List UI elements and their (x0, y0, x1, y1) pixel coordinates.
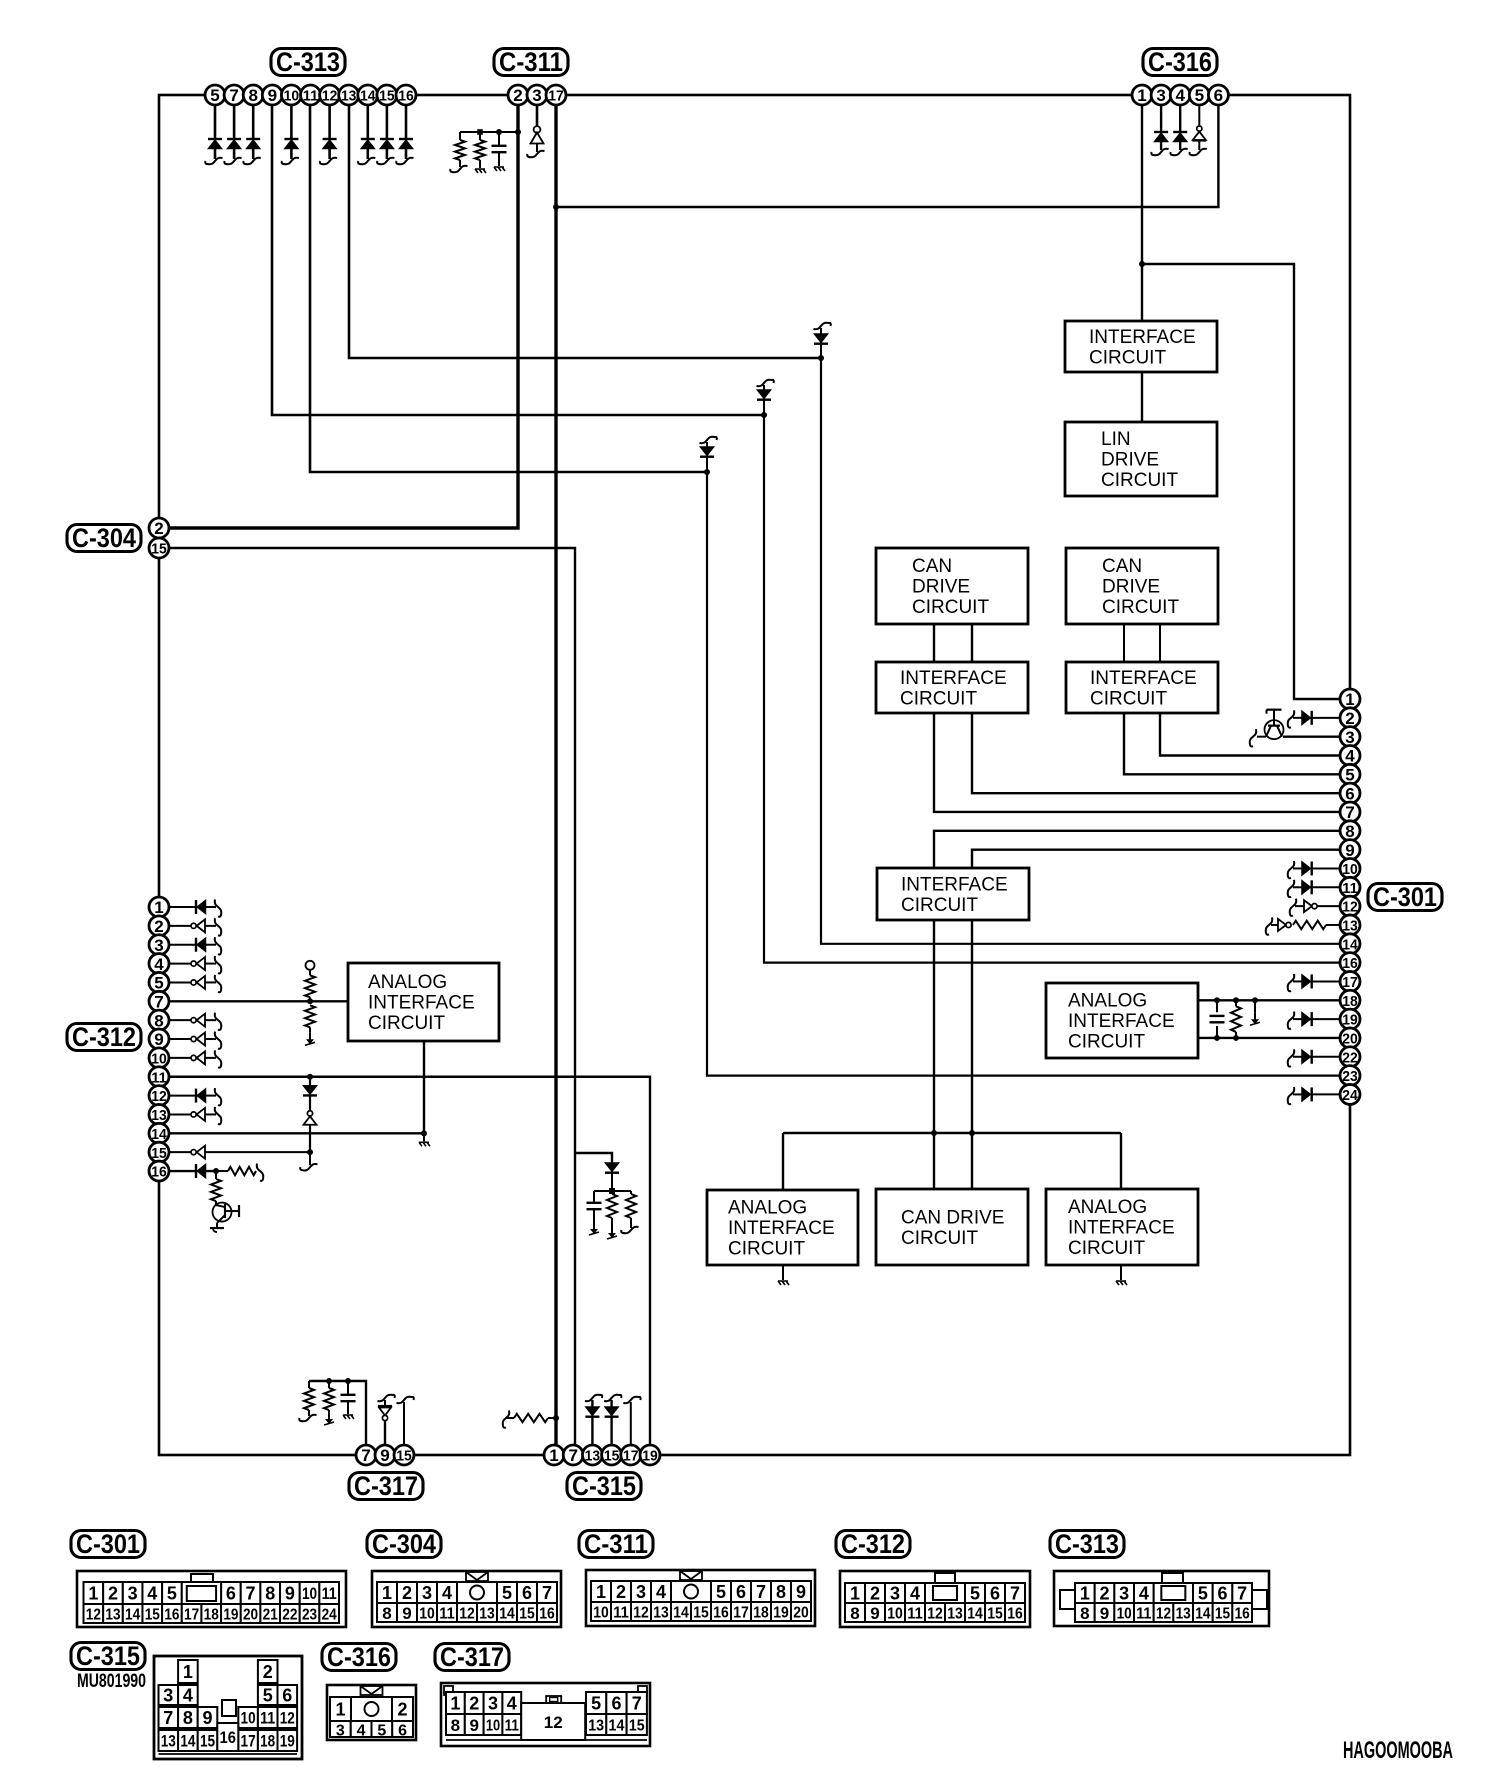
svg-text:7: 7 (163, 1708, 173, 1728)
svg-text:INTERFACE: INTERFACE (1068, 1011, 1175, 1032)
svg-text:14: 14 (499, 1606, 515, 1623)
svg-text:C-312: C-312 (72, 1022, 136, 1052)
wire U6 to C-301 pin 5 (1124, 713, 1350, 774)
svg-text:12: 12 (1342, 899, 1358, 916)
pin C-301:5 (1340, 764, 1360, 784)
pin C-301:7 (1340, 802, 1360, 822)
wire C-301 pin 9 to U7 (972, 850, 1350, 868)
svg-text:CAN: CAN (1102, 556, 1142, 577)
pin C-301:2 (1340, 708, 1360, 728)
junction pin14 node (421, 1130, 427, 1136)
svg-text:ANALOG: ANALOG (1068, 991, 1147, 1012)
svg-text:4: 4 (910, 1584, 920, 1604)
svg-text:9: 9 (402, 1604, 411, 1623)
svg-text:5: 5 (377, 1723, 386, 1740)
wire node B to C-301 pin 16 (764, 415, 1350, 963)
svg-text:9: 9 (469, 1716, 478, 1735)
svg-text:3: 3 (1119, 1584, 1129, 1604)
svg-text:C-304: C-304 (72, 523, 136, 553)
wire node C to C-301 pin 23 (707, 472, 1350, 1076)
svg-text:2: 2 (1345, 709, 1354, 728)
svg-text:4: 4 (357, 1723, 366, 1740)
svg-text:15: 15 (987, 1606, 1003, 1623)
svg-text:HAGOOMOOBA: HAGOOMOOBA (1343, 1737, 1453, 1764)
svg-text:14: 14 (1195, 1606, 1210, 1623)
pin C-313:7 (224, 85, 244, 105)
svg-text:5: 5 (591, 1694, 601, 1714)
svg-text:12: 12 (86, 1607, 101, 1624)
svg-text:1: 1 (88, 1584, 98, 1604)
transistor Q2 (210, 1203, 239, 1233)
svg-text:5: 5 (1198, 1584, 1208, 1604)
svg-text:CAN: CAN (912, 556, 952, 577)
pin C-301:8 (1340, 821, 1360, 841)
svg-text:4: 4 (507, 1694, 517, 1714)
resistor R5 between pin18/pin20 nets (1231, 997, 1241, 1041)
svg-text:18: 18 (204, 1607, 219, 1624)
svg-text:CIRCUIT: CIRCUIT (728, 1239, 805, 1260)
ground below U10 (1116, 1265, 1127, 1285)
svg-text:23: 23 (1342, 1068, 1358, 1085)
pin C-312:3 (149, 935, 169, 955)
block CAN DRIVE CIRCUIT U3 (876, 548, 1028, 624)
connector body C-312 (840, 1571, 1030, 1627)
wire U6 to C-301 pin 4 (1160, 713, 1350, 755)
svg-text:12: 12 (927, 1606, 943, 1623)
svg-text:5: 5 (154, 974, 163, 993)
svg-text:24: 24 (1342, 1087, 1358, 1104)
wire U3 to U5 left (933, 624, 935, 662)
pin C-301:3 (1340, 727, 1360, 747)
wire bus to analog interface circuits (783, 1133, 1121, 1190)
svg-text:11: 11 (1136, 1606, 1151, 1623)
svg-text:4: 4 (1139, 1584, 1149, 1604)
open diode at C-312 pin 4 (169, 956, 221, 973)
svg-text:16: 16 (713, 1605, 729, 1622)
wire C-313 pin 9 down-right to node B (272, 105, 764, 415)
svg-text:17: 17 (733, 1605, 749, 1622)
transistor Q1 at C-301 pin 3 (1250, 710, 1340, 747)
capacitor C1 near C-311 pin 2 (492, 132, 507, 171)
pin C-304:15 (149, 538, 169, 558)
wire C-311 pin 2 to C-304 pin 2 (159, 105, 518, 528)
svg-text:19: 19 (642, 1448, 658, 1465)
pin C-312:15 (149, 1142, 169, 1162)
junction R9 top (326, 1378, 332, 1384)
resistor R6 at pin 16 (216, 1164, 263, 1181)
svg-text:12: 12 (280, 1709, 295, 1728)
connector label C-317 (bottom) (349, 1471, 423, 1501)
svg-text:11: 11 (260, 1709, 275, 1728)
svg-text:CIRCUIT: CIRCUIT (1090, 688, 1167, 709)
svg-text:C-316: C-316 (327, 1642, 391, 1672)
svg-text:INTERFACE: INTERFACE (900, 668, 1007, 689)
svg-text:2: 2 (154, 519, 163, 538)
svg-text:17: 17 (548, 88, 564, 105)
capacitor C2 in RC filter (587, 1191, 613, 1235)
connector label C-317 (diagram) (435, 1642, 509, 1672)
svg-text:C-315: C-315 (76, 1641, 140, 1671)
open diode at C-312 pin 8 (169, 1013, 221, 1030)
svg-text:15: 15 (519, 1606, 535, 1623)
junction C1 top (496, 129, 502, 135)
pin C-312:1 (149, 897, 169, 917)
svg-text:16: 16 (398, 88, 414, 105)
wire C-311 pin 17 to C-315 pin 1 (554, 105, 557, 1455)
svg-text:7: 7 (154, 993, 163, 1012)
svg-text:8: 8 (451, 1716, 460, 1735)
diode below C-313 pin 8 (243, 105, 260, 164)
pin C-312:7 (149, 991, 169, 1011)
open diode at C-312 pin 5 (169, 975, 221, 992)
svg-text:2: 2 (469, 1694, 479, 1714)
svg-text:11: 11 (505, 1718, 519, 1735)
svg-text:19: 19 (773, 1605, 789, 1622)
pin C-301:16 (1340, 953, 1360, 973)
svg-text:16: 16 (151, 1164, 167, 1181)
pin C-312:2 (149, 916, 169, 936)
pin C-313:9 (262, 85, 282, 105)
pin C-313:15 (377, 85, 397, 105)
svg-text:15: 15 (693, 1605, 709, 1622)
svg-text:7: 7 (1237, 1584, 1247, 1604)
pin C-301:6 (1340, 783, 1360, 803)
svg-text:10: 10 (1342, 861, 1358, 878)
connector label C-312 (diagram) (836, 1529, 910, 1559)
svg-text:INTERFACE: INTERFACE (728, 1218, 835, 1239)
svg-text:LIN: LIN (1101, 429, 1131, 450)
svg-text:2: 2 (402, 1583, 412, 1603)
diode below C-313 pin 16 (396, 105, 413, 164)
svg-text:6: 6 (736, 1582, 746, 1602)
connector body C-304 (372, 1571, 561, 1627)
svg-text:6: 6 (1214, 86, 1223, 105)
junction RC filter node (609, 1188, 615, 1194)
capacitor C3 between pin18/pin20 nets (1210, 997, 1225, 1041)
wire junction to C-301 pin 1 (1142, 264, 1350, 699)
svg-text:9: 9 (1100, 1604, 1109, 1623)
wire U7 down right to CAN drive U9 (971, 920, 973, 1189)
svg-text:10: 10 (284, 88, 300, 105)
block INTERFACE CIRCUIT U6 (1066, 662, 1218, 713)
pin C-301:9 (1340, 840, 1360, 860)
svg-text:10: 10 (302, 1584, 317, 1603)
connector body C-316 (327, 1685, 416, 1740)
svg-text:10: 10 (151, 1050, 167, 1067)
svg-text:INTERFACE: INTERFACE (368, 993, 475, 1014)
svg-text:11: 11 (303, 88, 319, 105)
svg-text:2: 2 (1099, 1584, 1109, 1604)
svg-text:7: 7 (1345, 803, 1354, 822)
wire U5 to C-301 pin 6 (972, 713, 1350, 793)
svg-text:INTERFACE: INTERFACE (1090, 668, 1197, 689)
pull-down resistor below junction (305, 1005, 315, 1045)
svg-text:3: 3 (336, 1723, 345, 1740)
svg-text:7: 7 (542, 1583, 552, 1603)
junction C4 top (345, 1378, 351, 1384)
svg-text:5: 5 (1195, 86, 1204, 105)
svg-text:12: 12 (633, 1605, 649, 1622)
svg-text:1: 1 (154, 898, 163, 917)
svg-text:11: 11 (1342, 880, 1358, 897)
svg-text:8: 8 (776, 1582, 786, 1602)
diode at C-312 pin 16 (169, 1164, 216, 1178)
pin C-313:13 (339, 85, 359, 105)
svg-text:C-301: C-301 (1373, 882, 1437, 912)
svg-text:9: 9 (154, 1030, 163, 1049)
svg-text:12: 12 (1156, 1606, 1171, 1623)
RC network at C-317 pin 7 (309, 1381, 366, 1455)
svg-text:15: 15 (151, 541, 167, 558)
connector label C-312 (67, 1022, 141, 1052)
pin C-311:3 (527, 85, 547, 105)
pin C-317:9 (375, 1445, 395, 1465)
pin C-301:22 (1340, 1047, 1360, 1067)
wire net D to C-316 pin 6 (556, 105, 1218, 207)
pin C-301:19 (1340, 1009, 1360, 1029)
pin C-313:16 (396, 85, 416, 105)
wire node A to C-301 pin 14 (821, 358, 1350, 944)
pin C-301:14 (1340, 934, 1360, 954)
connector label C-304 (diagram) (367, 1529, 441, 1559)
diode above node A (814, 323, 831, 358)
svg-text:12: 12 (322, 88, 338, 105)
svg-text:8: 8 (183, 1708, 193, 1728)
svg-text:6: 6 (522, 1583, 532, 1603)
connector body C-311 (586, 1570, 815, 1626)
svg-text:16: 16 (1235, 1606, 1250, 1623)
open diode at C-312 pin 9 (169, 1032, 221, 1049)
svg-text:5: 5 (210, 86, 219, 105)
svg-text:21: 21 (263, 1607, 278, 1624)
connector label C-311 (494, 47, 568, 77)
svg-text:MU801990: MU801990 (77, 1671, 146, 1692)
svg-text:2: 2 (108, 1584, 118, 1604)
svg-text:8: 8 (154, 1011, 163, 1030)
svg-text:13: 13 (341, 88, 357, 105)
wire U7 down left to CAN drive U9 (933, 920, 935, 1189)
svg-text:8: 8 (265, 1584, 275, 1604)
resistor R4 in RC filter (612, 1191, 639, 1233)
pin C-313:10 (281, 85, 301, 105)
resistor tap at C-315 pin 1 (503, 1411, 556, 1428)
svg-text:C-313: C-313 (276, 47, 340, 77)
pin C-316:4 (1170, 85, 1190, 105)
svg-text:CIRCUIT: CIRCUIT (901, 1228, 978, 1249)
svg-text:CIRCUIT: CIRCUIT (1089, 347, 1166, 368)
svg-text:C-311: C-311 (584, 1529, 648, 1559)
connector label C-313 (diagram) (1050, 1529, 1124, 1559)
ECU block outer border (159, 95, 1350, 1455)
svg-text:C-317: C-317 (440, 1642, 504, 1672)
diode below C-313 pin 10 (282, 105, 299, 164)
svg-text:CIRCUIT: CIRCUIT (1101, 470, 1178, 491)
pin C-312:9 (149, 1029, 169, 1049)
block CAN DRIVE CIRCUIT U4 (1066, 548, 1218, 624)
svg-text:C-312: C-312 (841, 1529, 905, 1559)
pin C-313:5 (205, 85, 225, 105)
svg-text:15: 15 (379, 88, 395, 105)
block INTERFACE CIRCUIT U5 (876, 662, 1028, 713)
svg-text:C-311: C-311 (499, 47, 563, 77)
diode at C-301 pin 11 (1288, 880, 1340, 897)
svg-text:13: 13 (479, 1606, 495, 1623)
pin C-315:7 (563, 1445, 583, 1465)
svg-text:C-301: C-301 (76, 1529, 140, 1559)
block LIN DRIVE CIRCUIT U2 (1065, 422, 1217, 496)
junction node A (818, 355, 824, 361)
diode at C-301 pin 22 (1288, 1049, 1340, 1066)
diode at C-301 pin 17 (1288, 974, 1340, 991)
junction TVS chain top (307, 1074, 313, 1080)
resistor R7 to transistor Q2 (211, 1171, 221, 1205)
pin C-315:1 (544, 1445, 564, 1465)
svg-text:14: 14 (151, 1126, 167, 1143)
svg-text:3: 3 (1156, 86, 1165, 105)
wire C-312 pin 14 to U12 ground (169, 1041, 424, 1133)
svg-text:C-315: C-315 (572, 1471, 636, 1501)
svg-text:2: 2 (513, 86, 522, 105)
svg-text:22: 22 (1342, 1049, 1358, 1066)
svg-text:13: 13 (1342, 918, 1358, 935)
svg-text:16: 16 (220, 1728, 237, 1747)
svg-text:15: 15 (1215, 1606, 1230, 1623)
connector label C-304 (67, 523, 141, 553)
svg-text:20: 20 (793, 1605, 809, 1622)
sheet code HAGOOMOOBA (1343, 1737, 1453, 1764)
svg-text:ANALOG: ANALOG (728, 1198, 807, 1219)
open diode at C-312 pin 2 (169, 918, 221, 935)
diode below C-316 pin 4 (1170, 105, 1187, 155)
junction on C-316 pin 1 wire (1139, 261, 1145, 267)
svg-text:19: 19 (280, 1732, 295, 1751)
svg-text:14: 14 (360, 88, 376, 105)
svg-text:5: 5 (970, 1584, 980, 1604)
svg-text:4: 4 (154, 955, 164, 974)
svg-text:5: 5 (1345, 766, 1354, 785)
block INTERFACE CIRCUIT U1 (top right) (1065, 321, 1217, 372)
svg-text:CIRCUIT: CIRCUIT (1102, 597, 1179, 618)
pin C-316:3 (1151, 85, 1171, 105)
pin C-301:24 (1340, 1084, 1360, 1104)
svg-text:3: 3 (636, 1582, 646, 1602)
svg-text:6: 6 (990, 1584, 1000, 1604)
pin C-301:18 (1340, 990, 1360, 1010)
open diode at C-312 pin 10 (169, 1050, 221, 1067)
svg-text:ANALOG: ANALOG (1068, 1197, 1147, 1218)
twisted-pair stub at C-311 pin 3 (527, 105, 544, 157)
wire C-301 pin 8 to U7 (934, 831, 1350, 868)
pin C-301:4 (1340, 745, 1360, 765)
resistor R2 near C-311 pin 2 (475, 132, 486, 173)
pin C-315:13 (582, 1445, 602, 1465)
pin C-312:10 (149, 1048, 169, 1068)
pin C-316:1 (1132, 85, 1152, 105)
svg-text:19: 19 (1342, 1012, 1358, 1029)
wire U3 to U5 right (971, 624, 973, 662)
svg-text:15: 15 (145, 1607, 160, 1624)
diode below C-313 pin 7 (224, 105, 241, 164)
svg-text:11: 11 (907, 1606, 923, 1623)
svg-text:4: 4 (147, 1584, 157, 1604)
resistor R1 near C-311 pin 2 (450, 140, 467, 172)
svg-text:CIRCUIT: CIRCUIT (901, 895, 978, 916)
diode below C-313 pin 14 (358, 105, 375, 164)
pin C-312:12 (149, 1086, 169, 1106)
svg-text:8: 8 (850, 1604, 859, 1623)
diode below C-313 pin 12 (320, 105, 337, 164)
diode below C-316 pin 3 (1151, 105, 1168, 155)
pin C-301:23 (1340, 1066, 1360, 1086)
block CAN DRIVE CIRCUIT U9 (bottom) (876, 1189, 1028, 1265)
svg-text:7: 7 (568, 1446, 577, 1465)
diode at C-312 pin 3 (169, 937, 221, 954)
svg-text:3: 3 (422, 1583, 432, 1603)
svg-text:7: 7 (756, 1582, 766, 1602)
block ANALOG INTERFACE CIRCUIT U8 (bottom left) (707, 1190, 858, 1265)
svg-text:16: 16 (539, 1606, 555, 1623)
pin C-301:11 (1340, 877, 1360, 897)
svg-text:9: 9 (796, 1582, 806, 1602)
svg-text:14: 14 (673, 1605, 689, 1622)
svg-text:INTERFACE: INTERFACE (901, 874, 1008, 895)
wire U11 to C-301 pin 18 (1198, 999, 1350, 1001)
svg-text:10: 10 (1117, 1606, 1132, 1623)
svg-text:7: 7 (229, 86, 238, 105)
svg-text:INTERFACE: INTERFACE (1089, 327, 1196, 348)
capacitor C4 (341, 1381, 356, 1419)
wire C-304 pin 15 to C-315 pin 7 (159, 548, 575, 1455)
resistor R9 (324, 1381, 334, 1425)
connector label C-311 (diagram) (579, 1529, 653, 1559)
svg-text:C-316: C-316 (1148, 47, 1212, 77)
open diode at C-312 pin 15 (169, 1146, 310, 1159)
svg-text:19: 19 (223, 1607, 238, 1624)
svg-text:3: 3 (890, 1584, 900, 1604)
svg-text:3: 3 (1345, 728, 1354, 747)
open diode at C-312 pin 13 (169, 1107, 221, 1124)
svg-text:10: 10 (419, 1606, 435, 1623)
svg-text:9: 9 (268, 86, 277, 105)
svg-text:ANALOG: ANALOG (368, 972, 447, 993)
junction bus left (931, 1130, 937, 1136)
junction node C (704, 469, 710, 475)
svg-text:16: 16 (164, 1607, 179, 1624)
pin C-315:19 (640, 1445, 660, 1465)
svg-text:2: 2 (263, 1662, 273, 1682)
diode at C-301 pin 19 (1288, 1012, 1340, 1029)
diode at C-301 pin 2 (1288, 710, 1340, 727)
svg-text:15: 15 (629, 1718, 645, 1735)
svg-text:12: 12 (151, 1088, 167, 1105)
pin C-312:5 (149, 972, 169, 992)
ground below U12 (419, 1133, 430, 1146)
svg-text:CAN DRIVE: CAN DRIVE (901, 1207, 1004, 1228)
svg-text:17: 17 (241, 1732, 256, 1751)
svg-text:1: 1 (183, 1662, 193, 1682)
svg-text:15: 15 (151, 1145, 167, 1162)
svg-text:11: 11 (322, 1584, 337, 1603)
svg-text:C-304: C-304 (372, 1529, 436, 1559)
wire C-312 pin 7 to analog interface U12 (169, 1000, 348, 1002)
resistor R3 in RC filter (607, 1194, 617, 1239)
svg-text:15: 15 (396, 1448, 412, 1465)
svg-text:3: 3 (163, 1686, 173, 1706)
svg-text:1: 1 (596, 1582, 606, 1602)
svg-text:9: 9 (870, 1604, 879, 1623)
connector label C-315 (diagram) (71, 1641, 145, 1671)
pin C-313:14 (358, 85, 378, 105)
